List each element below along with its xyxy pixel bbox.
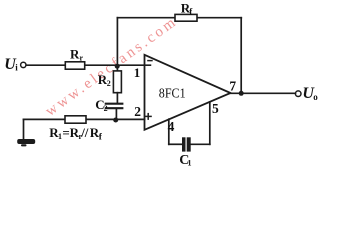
svg-text:8FC1: 8FC1 bbox=[159, 85, 186, 100]
svg-text:5: 5 bbox=[212, 101, 219, 116]
svg-text:o: o bbox=[313, 92, 318, 102]
svg-text:2: 2 bbox=[107, 79, 111, 88]
svg-text:1: 1 bbox=[58, 132, 62, 141]
svg-text:1: 1 bbox=[188, 158, 192, 167]
svg-text://: // bbox=[80, 125, 89, 140]
svg-text:f: f bbox=[99, 132, 103, 142]
svg-text:7: 7 bbox=[229, 78, 236, 93]
svg-text:2: 2 bbox=[104, 104, 108, 113]
svg-text:i: i bbox=[15, 62, 18, 72]
svg-text:r: r bbox=[80, 53, 84, 62]
svg-text:4: 4 bbox=[168, 119, 175, 134]
svg-text:R: R bbox=[70, 47, 80, 62]
svg-text:1: 1 bbox=[134, 65, 141, 80]
svg-text:2: 2 bbox=[134, 104, 141, 119]
